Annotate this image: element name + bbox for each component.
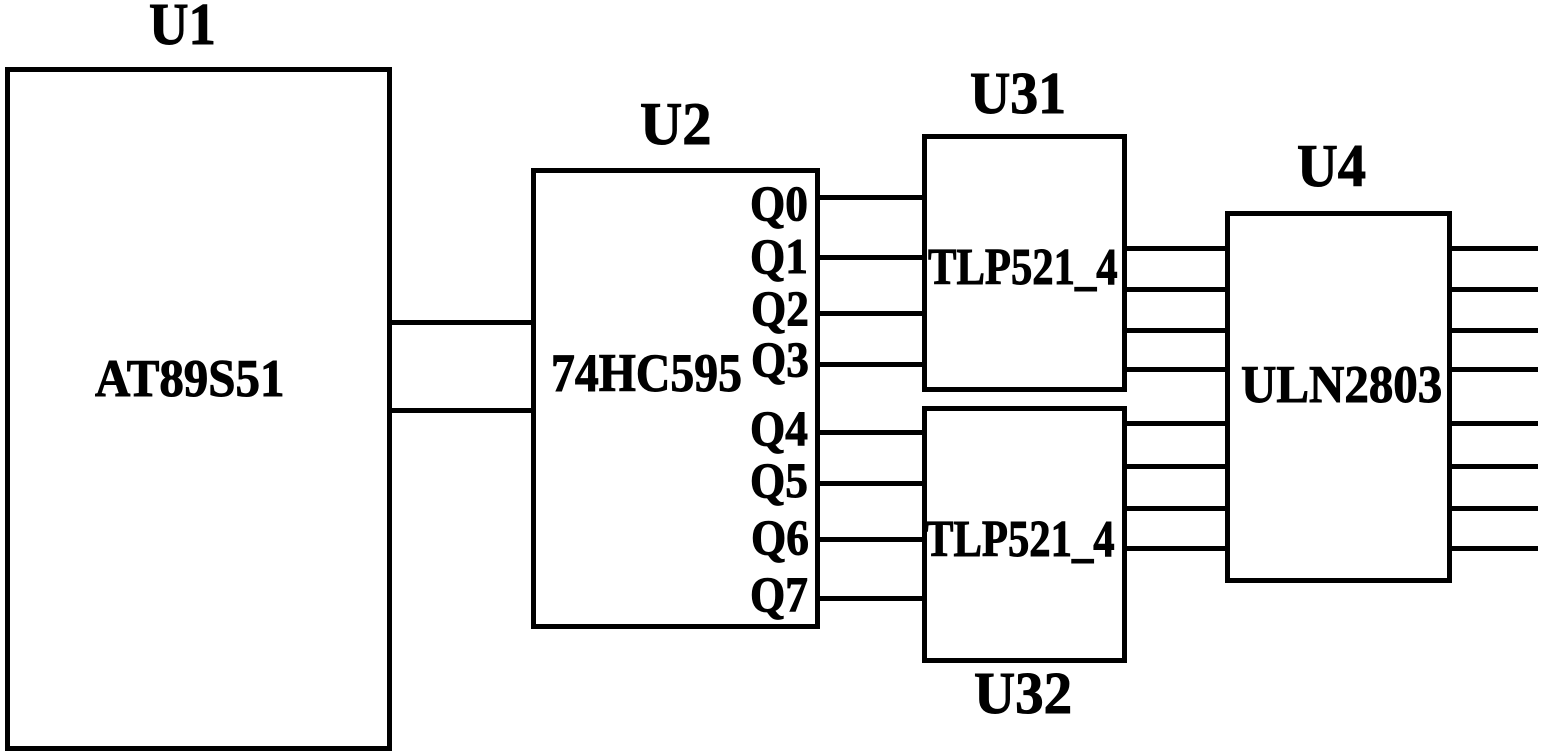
wire U31 to U4 input 3 bbox=[1124, 328, 1228, 333]
wire U2 pin Q4 to U32 bbox=[816, 430, 924, 435]
value label AT89S51 inside U1 bbox=[95, 353, 284, 406]
IC U32 TLP521_4 optocoupler box bbox=[922, 406, 1127, 663]
wire U2 pin Q5 to U32 bbox=[816, 481, 924, 486]
wire U4 output 5 bbox=[1449, 421, 1538, 426]
IC U2 74HC595 shift register box bbox=[531, 168, 820, 629]
wire U2 pin Q1 to U31 bbox=[816, 255, 924, 260]
wire U2 pin Q6 to U32 bbox=[816, 537, 924, 542]
pin label Q1 on U2 bbox=[750, 231, 808, 281]
pin label Q2 on U2 bbox=[751, 283, 809, 333]
pin label Q3 on U2 bbox=[751, 334, 809, 384]
label U31 (designator for upper TLP521_4) bbox=[970, 64, 1066, 123]
wire U2 pin Q0 to U31 bbox=[816, 195, 924, 200]
label U2 (designator for 74HC595) bbox=[640, 95, 711, 156]
label U1 (designator for AT89S51) bbox=[149, 0, 216, 55]
value label TLP521_4 inside U31 bbox=[928, 242, 1118, 294]
wire U4 output 6 bbox=[1449, 464, 1538, 469]
wire U32 to U4 input 5 bbox=[1124, 421, 1228, 426]
wire U31 to U4 input 2 bbox=[1124, 287, 1228, 292]
wire U32 to U4 input 6 bbox=[1124, 464, 1228, 469]
wire U2 pin Q2 to U31 bbox=[816, 311, 924, 316]
wire U2 pin Q3 to U31 bbox=[816, 362, 924, 367]
wire U4 output 1 bbox=[1449, 246, 1538, 251]
wire U1 to U2 lower bbox=[390, 408, 533, 413]
wire U4 output 8 bbox=[1449, 546, 1538, 551]
wire U31 to U4 input 4 bbox=[1124, 367, 1228, 372]
wire U4 output 4 bbox=[1449, 367, 1538, 372]
pin label Q5 on U2 bbox=[750, 455, 808, 505]
value label ULN2803 inside U4 bbox=[1241, 358, 1442, 411]
value label TLP521_4 inside U32 bbox=[925, 514, 1115, 566]
wire U4 output 2 bbox=[1449, 287, 1538, 292]
wire U32 to U4 input 8 bbox=[1124, 546, 1228, 551]
IC U4 ULN2803 driver box bbox=[1225, 211, 1452, 583]
label U4 (designator for ULN2803) bbox=[1297, 137, 1366, 197]
wire U1 to U2 upper bbox=[390, 320, 533, 325]
pin label Q6 on U2 bbox=[751, 512, 809, 562]
wire U32 to U4 input 7 bbox=[1124, 506, 1228, 511]
IC U31 TLP521_4 optocoupler box bbox=[922, 134, 1127, 392]
pin label Q7 on U2 bbox=[750, 569, 808, 619]
label U32 (designator for lower TLP521_4) bbox=[974, 664, 1072, 724]
IC U1 AT89S51 microcontroller box bbox=[5, 67, 392, 751]
pin label Q0 on U2 bbox=[750, 178, 808, 228]
pin label Q4 on U2 bbox=[750, 403, 808, 453]
wire U31 to U4 input 1 bbox=[1124, 246, 1228, 251]
wire U2 pin Q7 to U32 bbox=[816, 596, 924, 601]
value label 74HC595 inside U2 bbox=[551, 346, 742, 400]
wire U4 output 7 bbox=[1449, 506, 1538, 511]
wire U4 output 3 bbox=[1449, 328, 1538, 333]
